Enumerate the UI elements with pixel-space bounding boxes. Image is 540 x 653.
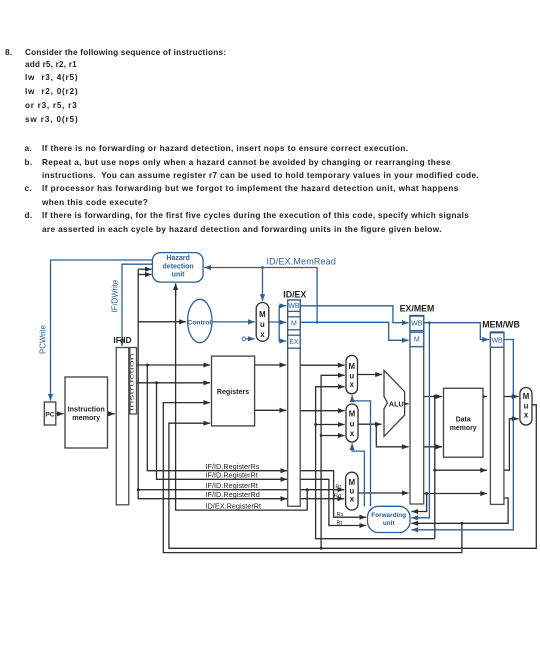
svg-text:M: M [349,362,356,371]
svg-text:Registers: Registers [217,388,249,396]
svg-text:IF/ID.RegisterRt: IF/ID.RegisterRt [206,471,258,480]
svg-text:u: u [524,401,529,410]
svg-text:M: M [414,337,420,344]
svg-text:MEM/WB: MEM/WB [482,319,520,329]
svg-text:x: x [350,494,355,503]
svg-text:memory: memory [450,425,477,432]
svg-text:PCWrite: PCWrite [38,325,47,354]
svg-text:unit: unit [172,272,185,279]
svg-text:Rd: Rd [334,493,341,499]
svg-text:Rt: Rt [337,520,343,526]
svg-text:Instruction: Instruction [68,404,105,413]
svg-text:x: x [350,429,355,438]
svg-text:u: u [350,419,355,428]
svg-text:Forwarding: Forwarding [371,512,406,519]
svg-text:Rt: Rt [335,484,341,490]
svg-text:ALU: ALU [389,400,404,409]
svg-text:x: x [350,380,355,389]
svg-text:M: M [259,310,266,319]
svg-text:IF/ID: IF/ID [113,335,131,345]
svg-text:EX/MEM: EX/MEM [400,303,435,313]
svg-text:ID/EX.MemRead: ID/EX.MemRead [267,256,336,266]
svg-text:M: M [523,392,530,401]
svg-text:M: M [291,321,297,328]
svg-text:WB: WB [288,303,300,310]
svg-text:IF/DWrite: IF/DWrite [111,280,120,313]
svg-text:ID/EX: ID/EX [283,289,306,299]
svg-text:x: x [260,330,265,339]
svg-text:x: x [524,411,529,420]
svg-text:Hazard: Hazard [166,255,189,262]
svg-text:PC: PC [45,411,54,418]
svg-text:EX: EX [289,339,299,346]
svg-text:memory: memory [72,413,100,422]
svg-text:M: M [349,410,356,419]
svg-text:Data: Data [456,416,471,423]
svg-text:Control: Control [188,320,212,327]
svg-text:unit: unit [383,520,396,527]
svg-text:WB: WB [491,337,503,344]
svg-text:detection: detection [163,263,194,270]
svg-text:Instruction: Instruction [130,353,136,411]
svg-text:IF/ID.RegisterRt: IF/ID.RegisterRt [206,481,258,490]
svg-text:Rs: Rs [337,512,344,518]
svg-text:u: u [260,320,265,329]
svg-text:IF/ID.RegisterRd: IF/ID.RegisterRd [206,490,260,499]
svg-text:ID/EX.RegisterRt: ID/EX.RegisterRt [206,502,262,511]
svg-text:WB: WB [411,321,423,328]
